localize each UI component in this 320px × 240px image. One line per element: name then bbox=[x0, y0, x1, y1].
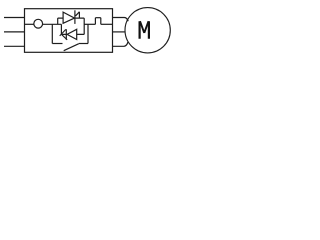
bypass contact right lead bbox=[79, 43, 88, 45]
bypass right vertical to main wire bbox=[87, 24, 89, 43]
output wire bottom bbox=[113, 42, 128, 46]
thyristor V2 cathode bar bbox=[65, 29, 67, 40]
wire: top branch bbox=[58, 17, 84, 19]
sensor bump right leg bbox=[100, 18, 102, 25]
wire: main wire right of loop bbox=[84, 23, 95, 25]
top branch left riser bbox=[57, 18, 59, 24]
thyristor V1 triangle bbox=[63, 12, 74, 23]
loop right vertical bbox=[83, 18, 85, 34]
bypass contact blade bbox=[64, 44, 79, 51]
thyristor V1 anode bar bbox=[62, 12, 64, 23]
wire: CT to branch junctions bbox=[43, 23, 62, 25]
thyristor V2 gate upper diagonal bbox=[60, 29, 66, 36]
thyristor V1 cathode bar bbox=[74, 10, 76, 24]
output wire top bbox=[113, 18, 128, 22]
thyristor V1 gate lead vertical bbox=[78, 12, 80, 18]
phase line L1 bbox=[4, 17, 25, 19]
motor label M bbox=[140, 21, 149, 39]
current transformer CT circle bbox=[34, 19, 43, 28]
wire: main through wire left segment bbox=[25, 23, 34, 25]
phase line L2 bbox=[4, 31, 25, 33]
motor circle bbox=[125, 8, 170, 53]
phase line L3 bbox=[4, 45, 25, 47]
soft starter enclosure box bbox=[25, 9, 113, 53]
thyristor V2 gate lower diagonal bbox=[62, 35, 67, 40]
wire: bottom branch bbox=[61, 33, 84, 35]
thyristor V1 gate bbox=[76, 12, 80, 16]
wire: bump to box right edge bbox=[101, 23, 113, 25]
sensor bump left leg bbox=[94, 18, 96, 25]
bottom branch left riser bbox=[60, 24, 62, 34]
bypass contact left lead bbox=[52, 43, 62, 45]
output wire middle bbox=[113, 31, 125, 33]
sensor bump top bbox=[95, 17, 100, 19]
bypass branch left vertical bbox=[51, 24, 53, 43]
thyristor V2 triangle bbox=[67, 29, 77, 39]
